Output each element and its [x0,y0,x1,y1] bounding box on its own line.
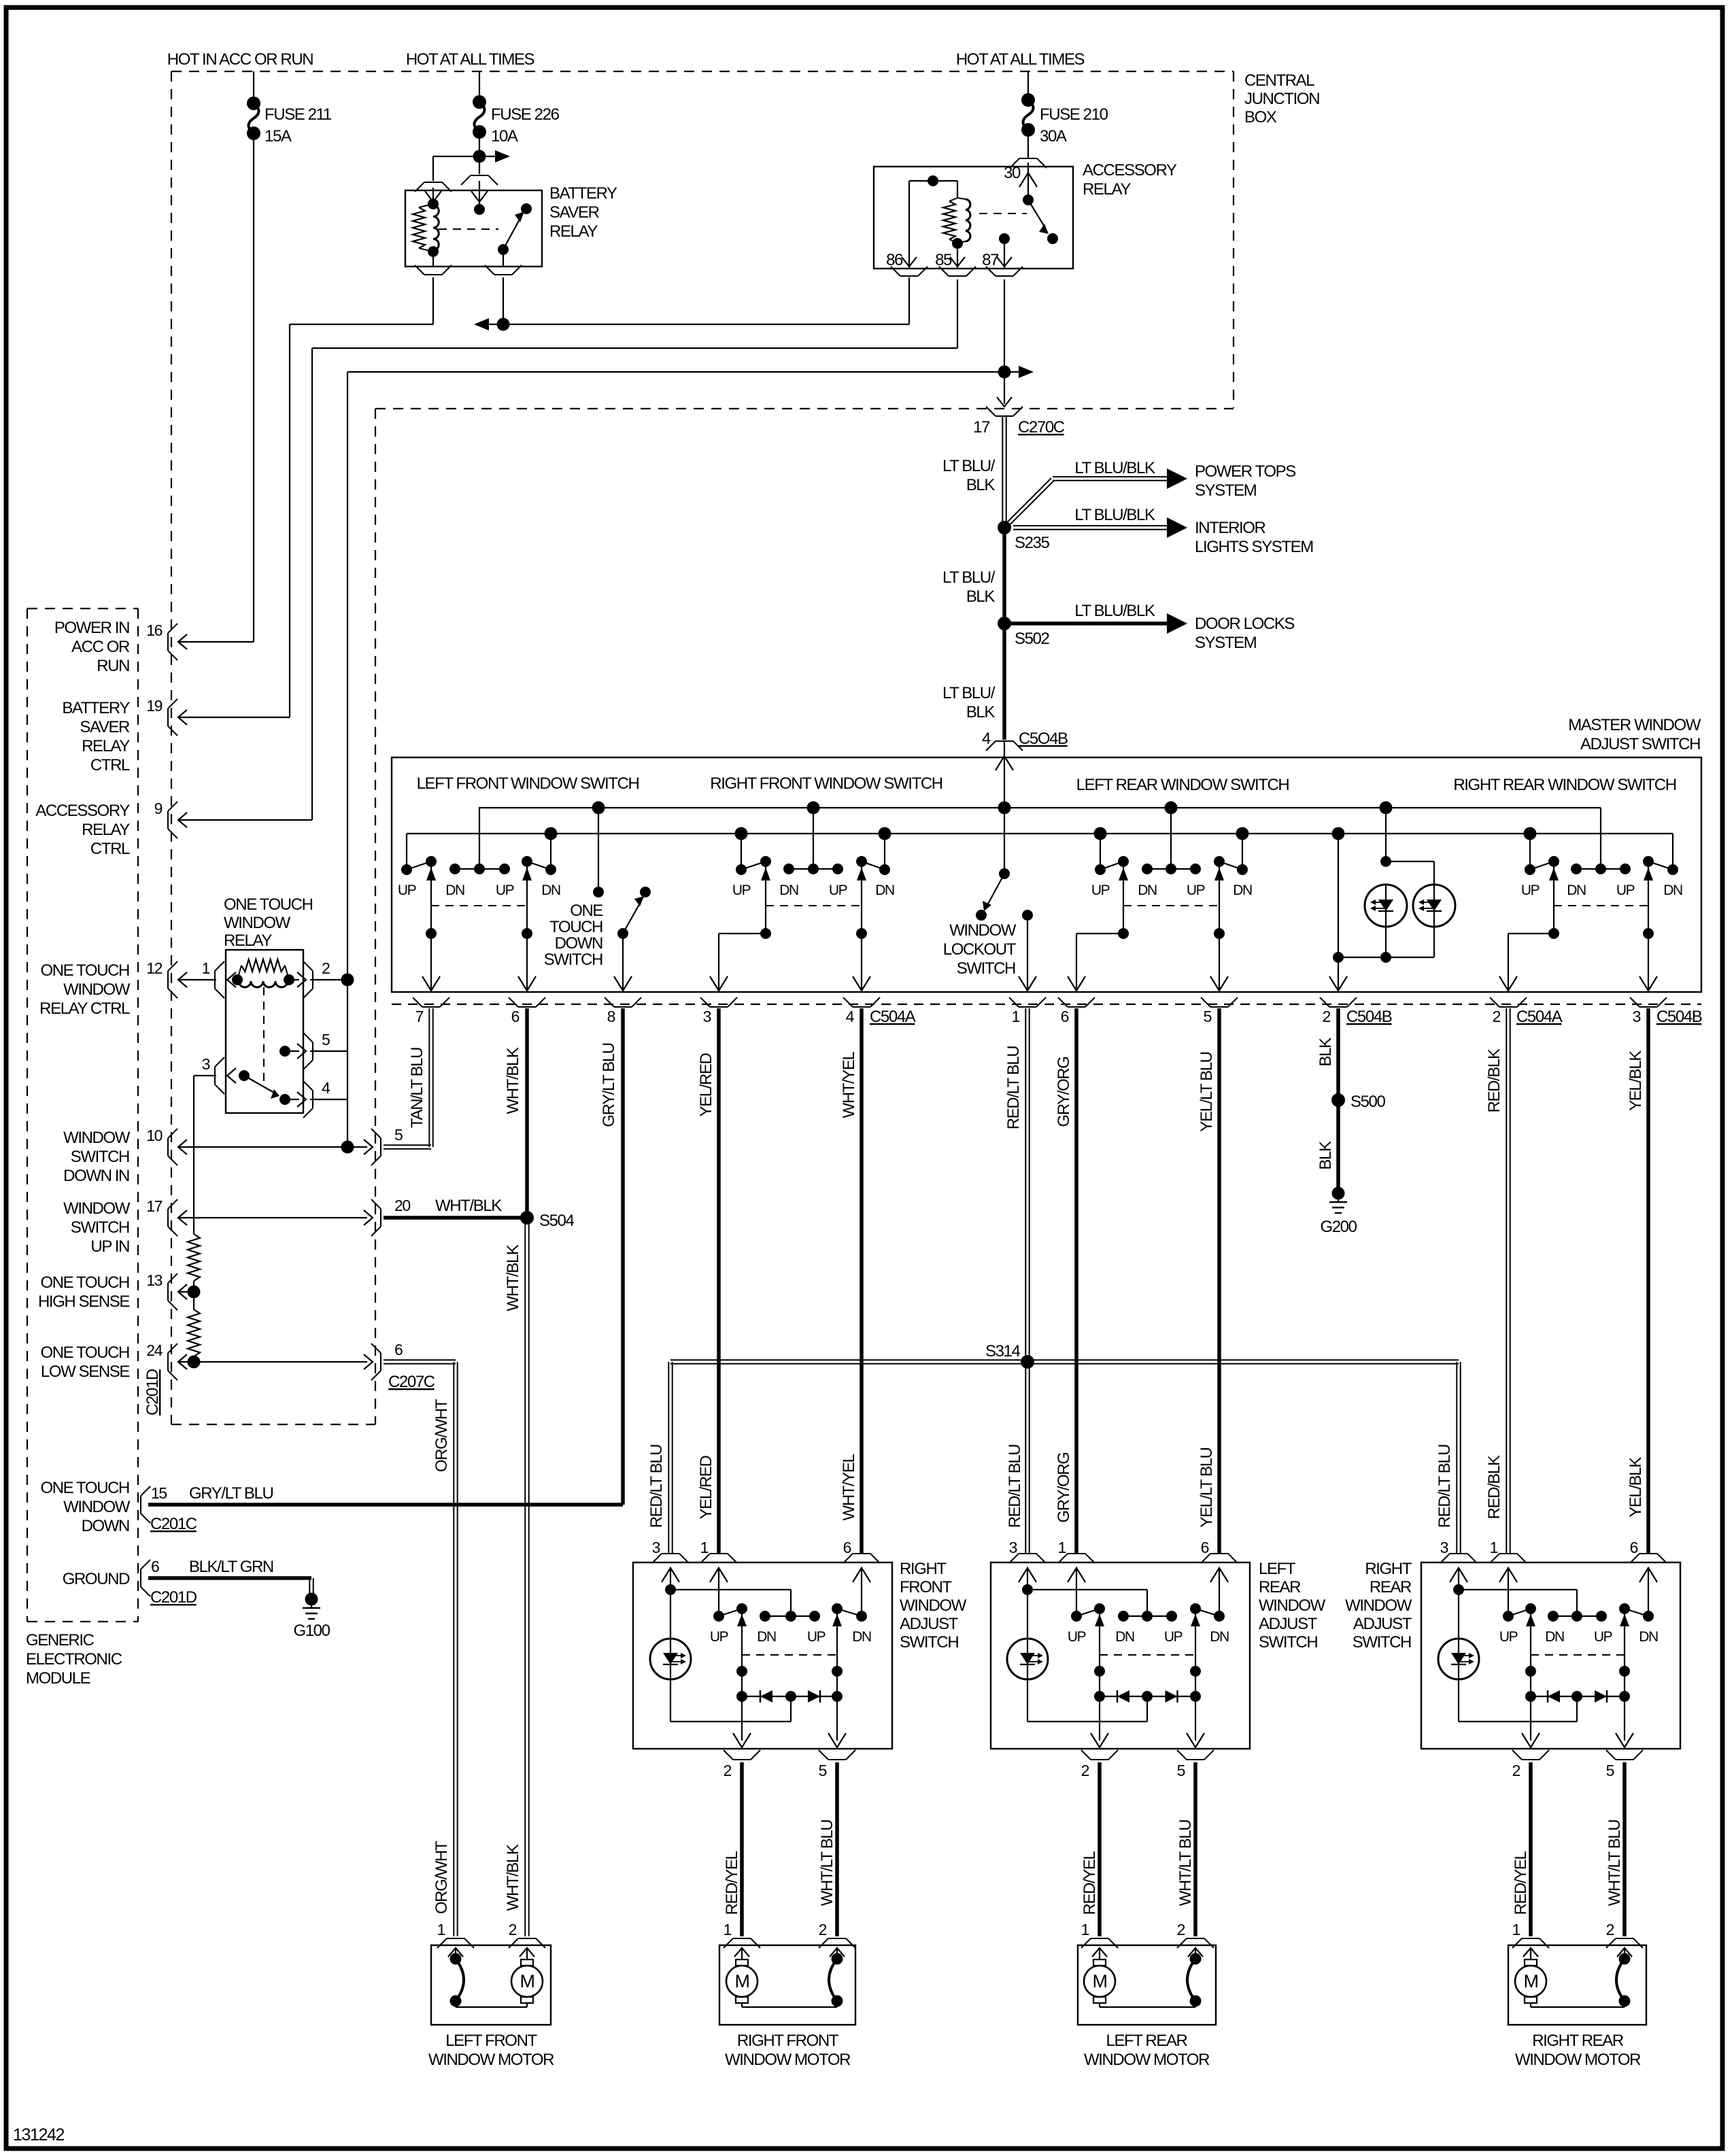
node battery saver switch NO contact [521,203,532,214]
svg-text:9: 9 [154,800,163,817]
svg-text:SWITCH: SWITCH [1259,1633,1317,1652]
svg-text:17: 17 [146,1197,162,1215]
wire dashed left rear adjust link [1100,1654,1195,1656]
wire right front adjust led return [670,1679,791,1722]
pin GEM 17 WINDOW SWITCH UP IN [63,1197,187,1256]
svg-text:MASTER WINDOW: MASTER WINDOW [1568,716,1701,734]
svg-text:BLK: BLK [966,703,996,721]
connector one touch relay pin 3 [202,1055,236,1094]
svg-text:ADJUST: ADJUST [1353,1615,1412,1633]
wire YEL/RED master pin 3 to right front adjust pin 1 [717,1008,721,1553]
svg-text:ACC OR: ACC OR [71,638,130,656]
svg-text:UP: UP [710,1629,728,1645]
svg-text:ADJUST: ADJUST [1259,1615,1318,1633]
svg-text:RED/LT BLU: RED/LT BLU [1004,1046,1023,1130]
wire dashed right front adjust link [742,1654,837,1656]
wire GEM pin 24 row to C207C pin 6 [180,1361,367,1363]
svg-text:LOW SENSE: LOW SENSE [41,1363,129,1381]
pin battery saver coil top entry arrow [425,188,441,204]
svg-text:2: 2 [322,959,330,977]
svg-text:WINDOW: WINDOW [1259,1596,1326,1615]
svg-text:WINDOW: WINDOW [63,980,131,999]
svg-text:6: 6 [1201,1539,1209,1556]
pin accessory 86/85/87 exit arrows [902,257,1012,267]
svg-text:BATTERY: BATTERY [549,184,617,203]
svg-text:15A: 15A [265,127,292,146]
svg-text:YEL/LT BLU: YEL/LT BLU [1197,1448,1216,1527]
svg-text:SWITCH: SWITCH [957,959,1015,978]
connector master switch pin 5 [1201,997,1238,1025]
label CENTRAL JUNCTION BOX [1244,71,1319,126]
wire BLK/LT GRN ground wire [148,1578,313,1595]
connector master switch pin 8 [605,997,641,1025]
connector right rear adjust pin 6 [1630,1539,1667,1563]
connector master switch pin 3 C504B [1630,997,1702,1026]
svg-text:30A: 30A [1040,127,1067,146]
svg-text:4: 4 [322,1079,330,1097]
svg-text:UP: UP [1091,883,1110,898]
svg-text:5: 5 [819,1762,827,1779]
svg-text:M: M [1523,1971,1537,1991]
svg-text:6: 6 [843,1539,851,1556]
svg-text:ONE TOUCH: ONE TOUCH [224,895,313,914]
svg-text:131242: 131242 [13,2125,65,2144]
wire LT BLU/BLK S502 to C5O4B [1002,623,1006,740]
svg-text:BLK: BLK [966,476,996,494]
label UP/DN right rear adjust [1499,1629,1658,1645]
wire ORG/WHT C207C pin6 to left front motor [384,1360,458,1936]
svg-text:DN: DN [1115,1629,1134,1645]
wire fuse 226 feed from HOT AT ALL TIMES [479,71,480,102]
svg-text:SWITCH: SWITCH [71,1148,129,1166]
node accessory relay coil top junction [928,175,938,186]
svg-text:DN: DN [1663,883,1682,898]
svg-text:86: 86 [886,251,903,269]
one touch window relay box [226,950,303,1113]
left front window motor box [431,1945,551,2025]
svg-text:RIGHT REAR: RIGHT REAR [1532,2032,1624,2050]
svg-text:UP: UP [1594,1629,1612,1645]
wire WHT/LT BLU left rear adjust pin 5 to motor [1193,1762,1197,1936]
wire branch to power tops system [1003,468,1187,529]
label RIGHT REAR WINDOW MOTOR [1515,2032,1641,2069]
svg-text:6: 6 [151,1558,159,1575]
master window adjust switch box [392,757,1701,992]
svg-text:DN: DN [852,1629,871,1645]
svg-text:INTERIOR: INTERIOR [1195,519,1266,537]
svg-text:8: 8 [607,1008,615,1025]
svg-text:3: 3 [703,1008,711,1025]
wire fuse 226 node to battery saver relay coil [433,156,479,181]
inductor accessory relay coil [957,198,970,243]
svg-text:BLK/LT GRN: BLK/LT GRN [189,1558,273,1576]
svg-text:RED/LT BLU: RED/LT BLU [1435,1445,1454,1528]
svg-text:GRY/ORG: GRY/ORG [1055,1057,1073,1127]
right front window motor box [719,1945,855,2025]
svg-text:ONE TOUCH: ONE TOUCH [40,1273,129,1292]
svg-text:LEFT FRONT: LEFT FRONT [445,2032,537,2050]
wire GEM pin 10 row to C207C pin 5 [180,1146,367,1148]
svg-text:WINDOW: WINDOW [224,914,291,932]
node battery saver switch fixed contact [474,204,485,215]
motor right front window motor [726,1948,758,2003]
svg-text:6: 6 [1630,1539,1638,1556]
svg-text:RUN: RUN [97,657,129,675]
connector master switch pin 6 [1058,997,1095,1025]
generic electronic module boundary (dashed) [27,609,138,1622]
resistor accessory relay coil shunt [943,198,957,243]
wire WHT/BLK C207C pin20 to S504 [384,1216,527,1220]
svg-text:UP: UP [1068,1629,1086,1645]
svg-text:1: 1 [1512,1921,1520,1938]
diode right rear adjust left [1531,1690,1625,1702]
svg-text:LOCKOUT: LOCKOUT [943,940,1017,959]
svg-text:5: 5 [1204,1008,1212,1025]
led right rear adjust switch illumination [1438,1639,1479,1679]
svg-text:FRONT: FRONT [900,1578,952,1596]
svg-text:UP: UP [1187,883,1205,898]
switch right front adjust DN [828,1568,870,1747]
connector left rear adjust pin 2 [1081,1750,1118,1779]
connector right front adjust pin 6 [843,1539,880,1563]
svg-text:WINDOW: WINDOW [63,1498,131,1516]
label LEFT REAR WINDOW ADJUST SWITCH [1259,1560,1326,1652]
svg-text:UP IN: UP IN [90,1237,129,1256]
pin battery saver center entry arrow [471,181,488,204]
svg-text:1: 1 [724,1921,732,1938]
connector master switch pin 3 [700,997,737,1025]
connector C207C pin 5 [364,1126,403,1165]
node accessory relay coil bottom [952,238,963,249]
connector accessory relay pin 87 [996,275,1013,277]
connector right front motor pin 2 [819,1921,855,1948]
svg-text:ONE TOUCH: ONE TOUCH [40,1344,129,1362]
pin GEM 15 ONE TOUCH WINDOW DOWN [40,1479,273,1535]
svg-text:UP: UP [496,883,514,898]
wire dashed right rear adjust link [1531,1654,1625,1656]
svg-text:BATTERY: BATTERY [62,699,130,717]
wire dashed relay actuator link (battery saver) [439,228,498,230]
fuse F226 10A [473,95,560,146]
wire battery saver coil bottom exit [432,252,434,267]
svg-text:WINDOW: WINDOW [63,1199,131,1218]
svg-text:ACCESSORY: ACCESSORY [35,802,130,820]
wire relay pin 5 lead [285,1050,299,1052]
svg-text:RED/YEL: RED/YEL [1512,1851,1530,1915]
svg-text:C504B: C504B [1346,1008,1392,1026]
node left rear adjust contact row [1118,1611,1177,1622]
label RIGHT REAR WINDOW ADJUST SWITCH [1345,1560,1412,1652]
svg-text:3: 3 [202,1055,210,1073]
svg-text:DN: DN [1545,1629,1564,1645]
svg-text:ORG/WHT: ORG/WHT [432,1841,451,1914]
svg-text:DN: DN [1138,883,1157,898]
connector battery saver relay center pin [471,175,488,176]
svg-text:C504B: C504B [1656,1008,1702,1026]
label ACCESSORY RELAY [1083,161,1177,199]
svg-text:DOWN IN: DOWN IN [63,1167,129,1185]
connector row C504 (dashed) [392,1004,1701,1005]
node bus2 junction RF UP pivot [735,827,748,840]
connector master switch pin 1 [1009,997,1046,1025]
svg-text:13: 13 [146,1271,162,1289]
svg-text:M: M [520,1971,534,1991]
node bus2 junction LR UP pivot [1094,827,1107,840]
wire RED/YEL left rear adjust pin 2 to motor [1098,1762,1102,1936]
connector C270C pin 17 [973,407,1065,437]
svg-text:RELAY CTRL: RELAY CTRL [39,999,130,1018]
svg-text:LT BLU/BLK: LT BLU/BLK [1074,459,1155,477]
svg-text:CTRL: CTRL [90,840,130,858]
svg-text:TAN/LT BLU: TAN/LT BLU [408,1048,426,1128]
pin GEM 12 ONE TOUCH WINDOW RELAY CTRL [39,959,187,1018]
svg-text:ORG/WHT: ORG/WHT [432,1399,451,1472]
svg-text:LT BLU/BLK: LT BLU/BLK [1074,506,1155,524]
svg-text:SWITCH: SWITCH [900,1633,958,1652]
svg-text:POWER IN: POWER IN [54,619,129,637]
svg-text:DN: DN [875,883,894,898]
wire LT BLU/BLK C270C to S235 [1002,417,1003,528]
svg-text:16: 16 [146,621,162,639]
svg-text:CENTRAL: CENTRAL [1244,71,1314,90]
ground G100 [305,1593,318,1606]
wire bus switched (lower bus in master switch) [407,833,1673,834]
pin GEM 24 ONE TOUCH LOW SENSE [40,1341,187,1381]
node fuse 226 junction [473,150,486,163]
svg-text:HOT IN ACC OR RUN: HOT IN ACC OR RUN [167,50,313,69]
svg-text:RIGHT REAR WINDOW SWITCH: RIGHT REAR WINDOW SWITCH [1453,776,1676,794]
pin GEM 10 WINDOW SWITCH DOWN IN [63,1127,187,1185]
connector left front motor pin 2 [509,1921,545,1948]
svg-text:15: 15 [151,1484,167,1502]
wire YEL/BLK master pin 3 to right rear adjust pin 6 [1646,1008,1650,1553]
svg-text:UP: UP [1521,883,1540,898]
diode right front adjust left [742,1690,837,1702]
svg-text:2: 2 [1323,1008,1331,1025]
wire BLK return in master box [1329,827,1347,993]
svg-text:20: 20 [394,1197,410,1214]
connector right rear adjust pin 2 [1512,1750,1549,1779]
node right rear adjust contact row [1548,1611,1607,1622]
node splice S502 [998,617,1050,648]
svg-text:C504A: C504A [870,1008,916,1026]
wire RED/YEL right rear adjust pin 2 to motor [1529,1762,1533,1936]
wire bus B+ (upper bus in master switch) [479,807,1601,808]
node splice S314 [985,1342,1034,1369]
node battery saver switch arm pivot [498,244,509,255]
svg-text:SWITCH: SWITCH [1353,1633,1411,1652]
svg-text:2: 2 [1081,1762,1089,1779]
battery saver relay box [405,190,542,267]
svg-text:2: 2 [1512,1762,1520,1779]
wire accessory branch vertical x=511 [347,980,348,1147]
svg-text:YEL/BLK: YEL/BLK [1627,1050,1645,1111]
svg-text:SYSTEM: SYSTEM [1195,481,1257,500]
svg-text:C201C: C201C [150,1515,197,1533]
label WINDOW LOCKOUT SWITCH [943,921,1017,978]
svg-text:LT BLU/: LT BLU/ [942,457,996,475]
connector accessory relay pin 86 [900,275,918,277]
svg-text:UP: UP [1616,883,1635,898]
svg-text:FUSE 211: FUSE 211 [265,105,332,124]
wire right rear adjust pin 3 feed [1450,1568,1577,1638]
node relay coil left [232,974,243,985]
label ONE TOUCH DOWN SWITCH [544,902,603,969]
right rear window adjust switch box [1421,1562,1680,1749]
svg-text:2: 2 [1606,1921,1614,1938]
svg-text:5: 5 [394,1126,403,1144]
svg-text:S235: S235 [1015,534,1050,552]
svg-text:1: 1 [437,1921,445,1938]
wire relay pin 2 to accessory branch [310,979,347,980]
switch one touch down [592,802,651,993]
connector master switch pin 7 [413,997,449,1025]
node battery saver switch bottom junction [497,318,510,331]
svg-text:WINDOW MOTOR: WINDOW MOTOR [1515,2051,1641,2069]
svg-text:5: 5 [1177,1762,1185,1779]
wire YEL/LT BLU master pin 5 to left rear adjust pin 6 [1217,1008,1221,1553]
accessory relay box [874,167,1073,269]
wire fuse 211 feed from HOT IN ACC OR RUN [253,71,254,103]
svg-text:FUSE 210: FUSE 210 [1040,105,1108,124]
wire GEM pin 17 row to C207C pin 20 [180,1217,367,1218]
svg-text:BLK: BLK [1316,1141,1335,1170]
svg-text:MODULE: MODULE [26,1669,90,1688]
wire led returns [1338,927,1434,963]
node GEM pin 24 junction [188,1356,201,1369]
wire GRY/ORG master pin 6 to left rear adjust pin 1 [1074,1008,1078,1553]
svg-text:JUNCTION: JUNCTION [1244,90,1319,108]
node accessory relay switch common [1023,194,1034,205]
svg-text:YEL/BLK: YEL/BLK [1627,1457,1645,1518]
svg-text:1: 1 [1012,1008,1020,1025]
right front motor brush arc [742,1948,845,2007]
svg-text:FUSE 226: FUSE 226 [491,105,560,124]
connector C5O4B pin 4 [982,730,1068,751]
svg-text:WINDOW: WINDOW [63,1129,131,1147]
svg-text:C201D: C201D [150,1588,197,1607]
motor right rear window motor [1515,1948,1546,2003]
svg-text:WHT/BLK: WHT/BLK [504,1844,522,1911]
svg-text:GENERIC: GENERIC [26,1631,95,1649]
wire WHT/LT BLU right rear adjust pin 5 to motor [1622,1762,1627,1936]
pin GEM 9 ACCESSORY RELAY CTRL [35,800,187,858]
label UP/DN left rear adjust [1068,1629,1229,1645]
switch right rear adjust UP [1499,1568,1540,1747]
resistor one touch relay coil shunt [237,959,289,980]
svg-text:UP: UP [1164,1629,1183,1645]
connector master switch pin 2 C504B [1320,997,1392,1026]
wire RED/LT BLU S314 to right front adjust pin 3 [668,1362,669,1553]
svg-text:YEL/RED: YEL/RED [697,1053,715,1116]
node lockout output to pin 1 [1019,910,1036,992]
svg-text:BLK: BLK [1316,1038,1335,1067]
svg-text:GROUND: GROUND [63,1570,130,1588]
led right front adjust switch illumination [650,1639,691,1679]
pin accessory relay pin 30 entry arrow [1019,162,1037,200]
wire accessory relay coil feed from pin 86 [909,181,957,269]
svg-text:DN: DN [1639,1629,1658,1645]
svg-text:RED/BLK: RED/BLK [1485,1048,1503,1112]
wire WHT/BLK S504 to left front motor [524,1218,526,1936]
connector right rear adjust pin 3 [1440,1539,1477,1563]
wire dashed one touch relay actuator [263,987,265,1086]
svg-text:85: 85 [935,251,952,269]
wire right rear adjust led return [1459,1679,1577,1722]
connector right front adjust pin 1 [700,1539,737,1563]
right front window adjust switch box [633,1562,892,1749]
svg-text:ONE TOUCH: ONE TOUCH [40,961,129,980]
pin GEM 13 ONE TOUCH HIGH SENSE [38,1271,187,1311]
wire fuse 210 feed from HOT AT ALL TIMES [1027,71,1029,100]
svg-text:4: 4 [846,1008,855,1025]
connector battery saver switch bottom [494,274,512,275]
wire dashed relay actuator link (accessory) [979,213,1027,214]
connector accessory relay pin 85 [949,275,966,277]
switch right front window (UP/DN) in master box [741,834,742,870]
pin GEM 19 BATTERY SAVER RELAY CTRL [62,697,187,774]
svg-text:POWER TOPS: POWER TOPS [1195,462,1295,481]
wire branch arrow right of fuse 226 node [479,150,510,162]
svg-text:RED/LT BLU: RED/LT BLU [647,1445,666,1528]
svg-text:2: 2 [1177,1921,1185,1938]
svg-text:WHT/LT BLU: WHT/LT BLU [818,1820,836,1906]
node S-branch pin 87 junction [998,366,1011,379]
svg-text:C270C: C270C [1018,418,1065,437]
svg-text:WHT/YEL: WHT/YEL [840,1454,858,1521]
node bus2 junction LR DN pivot [1236,827,1249,840]
svg-text:10A: 10A [491,127,518,146]
wire fuse 211 to GEM pin 16 [180,133,254,642]
svg-text:WINDOW MOTOR: WINDOW MOTOR [1084,2051,1210,2069]
node bus2 junction LF DN pivot [545,827,558,840]
svg-text:RIGHT: RIGHT [900,1560,947,1578]
resistor one touch low sense R2 [188,1310,200,1356]
node accessory relay pin 87 contact [999,233,1010,269]
svg-text:ONE TOUCH: ONE TOUCH [40,1479,129,1497]
svg-text:RED/YEL: RED/YEL [1081,1851,1099,1915]
wire branch to door locks system [1004,613,1187,634]
svg-text:6: 6 [511,1008,520,1025]
svg-text:HIGH SENSE: HIGH SENSE [38,1293,129,1311]
svg-text:12: 12 [146,959,162,977]
connector right front adjust pin 5 [819,1750,855,1779]
pin GEM 16 POWER IN ACC OR RUN [54,619,187,675]
svg-text:UP: UP [807,1629,826,1645]
svg-text:7: 7 [415,1008,424,1025]
label RIGHT FRONT WINDOW MOTOR [725,2032,851,2069]
fuse F211 15A [247,97,332,146]
led left rear adjust switch illumination [1007,1639,1048,1679]
svg-text:WINDOW: WINDOW [949,921,1017,940]
node one touch relay switch pivot [239,1070,250,1081]
connector left front motor pin 1 [437,1921,474,1948]
switch window lockout [976,802,1011,921]
wire relay pin 5 to vertical [310,1050,347,1052]
svg-text:ADJUST SWITCH: ADJUST SWITCH [1580,735,1700,753]
wire left rear adjust led return [1027,1679,1147,1722]
svg-text:UP: UP [398,883,416,898]
connector right rear motor pin 1 [1512,1921,1549,1948]
node accessory relay switch NO contact [1047,233,1058,244]
svg-text:LEFT REAR WINDOW SWITCH: LEFT REAR WINDOW SWITCH [1076,776,1289,794]
svg-text:LEFT: LEFT [1259,1560,1296,1578]
svg-text:RIGHT FRONT: RIGHT FRONT [737,2032,839,2050]
wire battery saver coil to GEM pin 19 [180,277,433,717]
connector left rear adjust pin 3 [1009,1539,1046,1563]
node junction one-touch output row 10 [341,1141,354,1154]
fuse F210 30A [1021,93,1108,146]
